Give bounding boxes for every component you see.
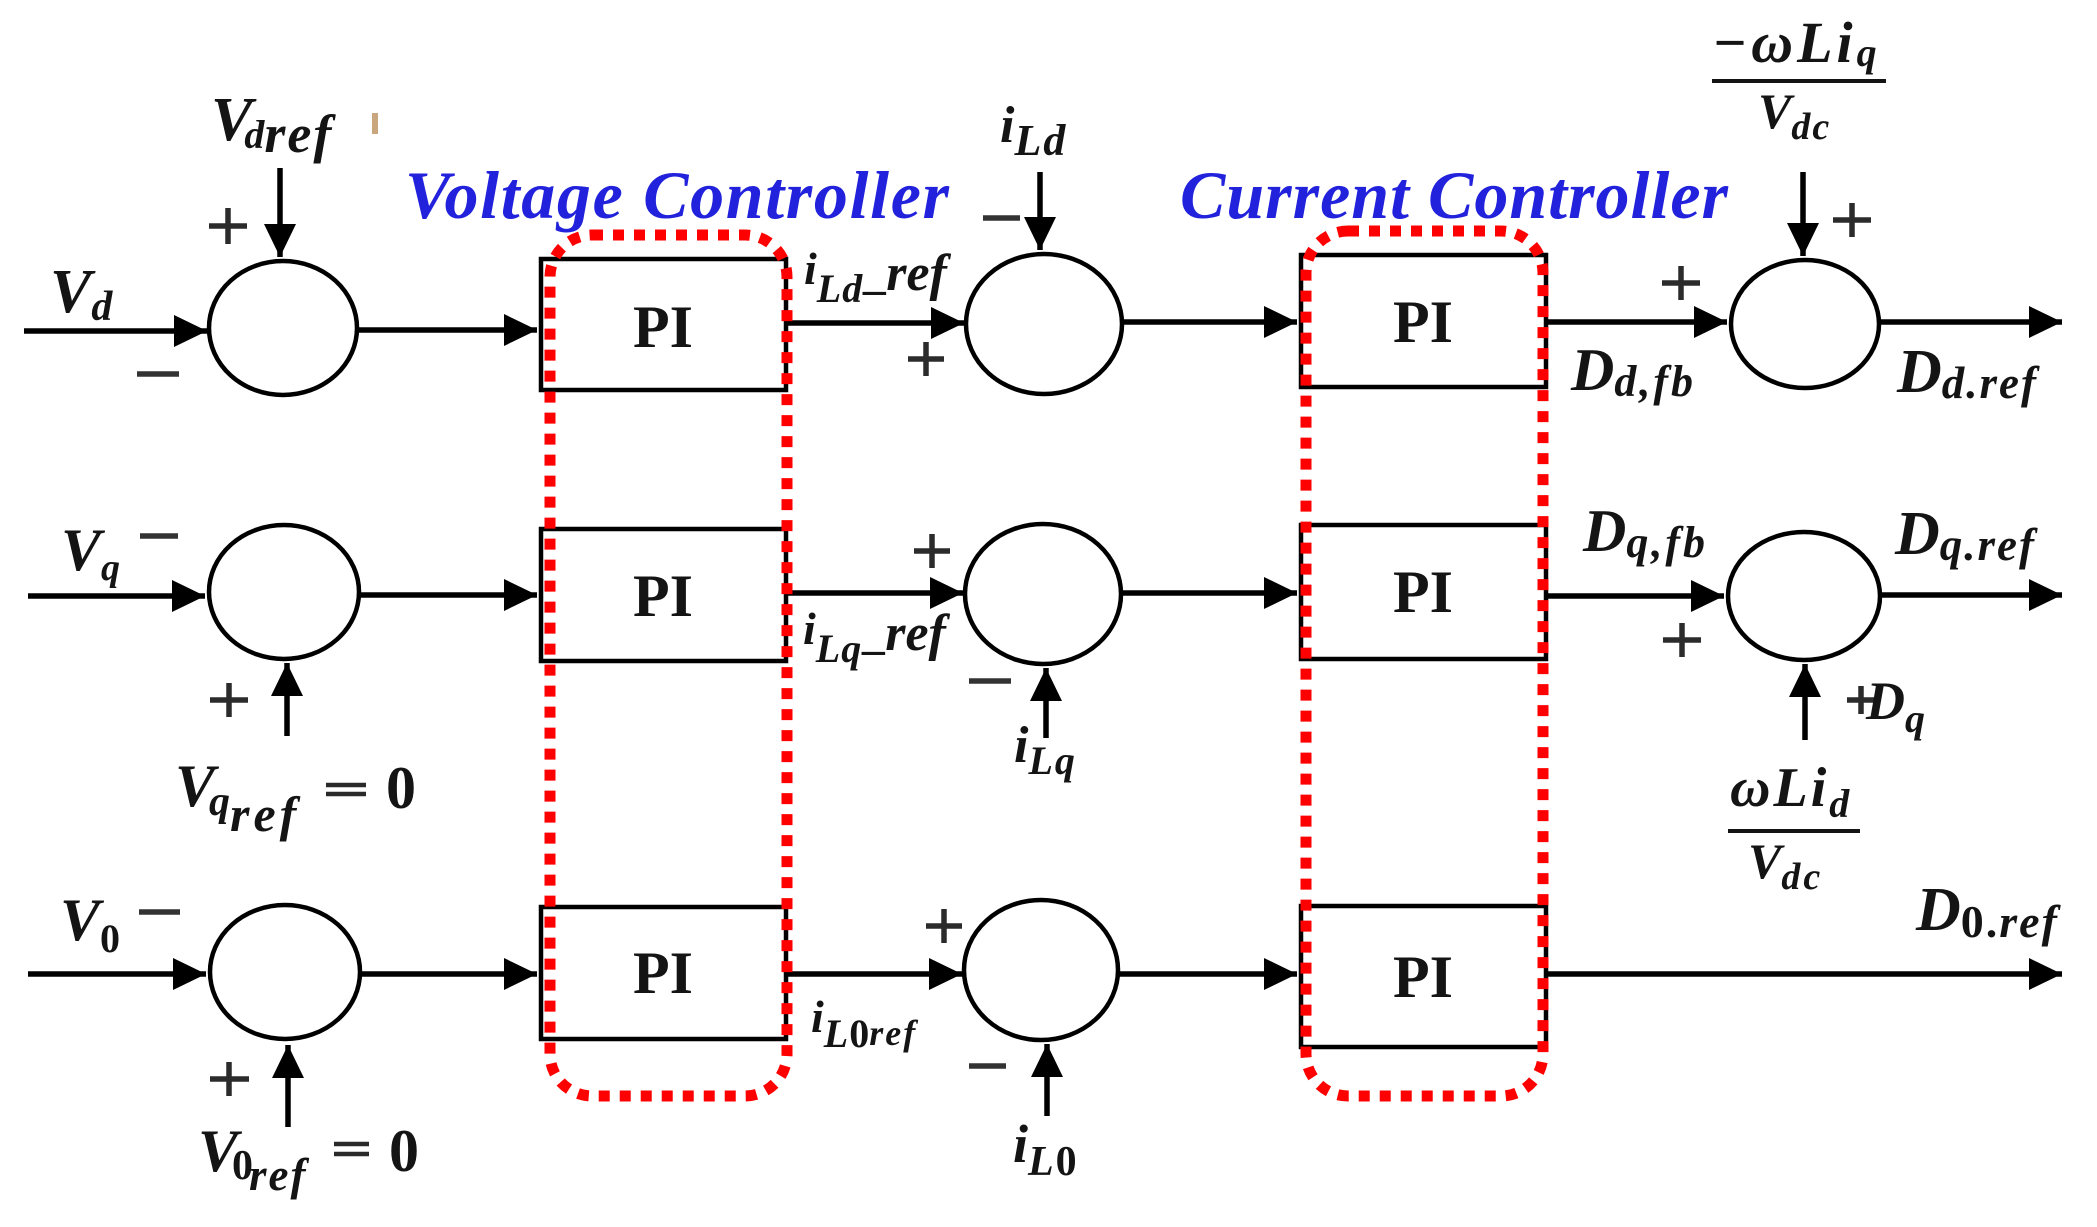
svg-text:PI: PI: [633, 294, 693, 360]
svg-text:Voltage Controller: Voltage Controller: [405, 157, 950, 233]
svg-text:PI: PI: [1393, 944, 1453, 1010]
svg-text:PI: PI: [633, 940, 693, 1006]
svg-text:Current Controller: Current Controller: [1180, 157, 1729, 233]
svg-text:−ωLiq: −ωLiq: [1712, 10, 1881, 75]
svg-text:0: 0: [386, 755, 416, 821]
svg-text:0: 0: [389, 1118, 419, 1184]
svg-text:PI: PI: [1393, 559, 1453, 625]
svg-text:PI: PI: [1393, 289, 1453, 355]
svg-text:PI: PI: [633, 563, 693, 629]
